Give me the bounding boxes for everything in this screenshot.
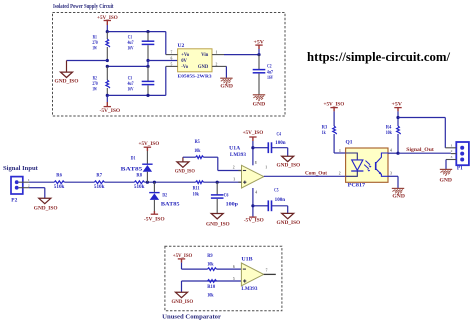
- node D2 cathode: [153, 181, 156, 184]
- wire col2 0V link: [147, 61, 149, 67]
- svg-text:Q1: Q1: [346, 140, 354, 145]
- svg-text:GND_ISO: GND_ISO: [172, 299, 194, 305]
- svg-text:C6: C6: [224, 193, 229, 198]
- svg-text:270: 270: [92, 41, 98, 46]
- svg-text:C4: C4: [277, 132, 282, 137]
- svg-text:1: 1: [265, 165, 267, 169]
- U2 E0505S-2WR3 body: [178, 49, 212, 72]
- svg-text:-5V_ISO: -5V_ISO: [144, 217, 165, 223]
- svg-text:510k: 510k: [94, 185, 105, 190]
- svg-text:2: 2: [451, 149, 453, 153]
- svg-text:4: 4: [255, 190, 257, 194]
- op-amp U1B: [241, 263, 263, 286]
- svg-text:7: 7: [266, 268, 268, 272]
- svg-text:C2: C2: [267, 65, 272, 70]
- node Q1 pin4 / R4: [396, 152, 399, 155]
- capacitor C4: [267, 142, 269, 153]
- svg-text:3: 3: [451, 155, 453, 159]
- ground GND (P1): [440, 168, 452, 170]
- svg-text:10k: 10k: [193, 193, 199, 198]
- svg-text:10k: 10k: [386, 131, 392, 136]
- wire C4 branch: [253, 147, 268, 149]
- capacitor C2: [258, 55, 260, 70]
- svg-text:4u7: 4u7: [128, 41, 134, 46]
- svg-text:LM393: LM393: [230, 152, 246, 158]
- svg-text:D1: D1: [131, 156, 136, 161]
- svg-text:PC817: PC817: [348, 184, 366, 189]
- wire top rail: [107, 31, 166, 33]
- svg-text:U1B: U1B: [241, 256, 253, 262]
- svg-text:R2: R2: [93, 76, 98, 81]
- resistor R7: [94, 181, 104, 184]
- svg-text:6: 6: [233, 265, 235, 269]
- node bottom rail left: [106, 94, 109, 97]
- svg-text:100p: 100p: [226, 202, 239, 207]
- svg-text:1: 1: [216, 51, 218, 55]
- svg-text:D2: D2: [162, 193, 167, 198]
- Q1 LED: [346, 153, 358, 160]
- wire 0V link row: [107, 65, 148, 67]
- node pin4/C5: [251, 204, 254, 207]
- svg-text:10k: 10k: [207, 263, 214, 268]
- svg-text:7: 7: [171, 51, 173, 55]
- svg-text:R10: R10: [207, 285, 215, 290]
- svg-text:Vin: Vin: [201, 53, 209, 58]
- svg-text:+5V_ISO: +5V_ISO: [243, 130, 264, 136]
- wire R5 left: [183, 156, 196, 158]
- svg-text:1W: 1W: [92, 47, 97, 52]
- node link right: [146, 65, 149, 68]
- wire signal segment d: [144, 181, 195, 183]
- svg-text:+Vo: +Vo: [181, 53, 190, 58]
- node Vin/+5V/C2: [257, 53, 260, 56]
- wire U2 GND down: [225, 66, 227, 78]
- svg-text:1: 1: [451, 143, 453, 147]
- svg-text:R3: R3: [322, 125, 328, 130]
- resistor R10: [208, 280, 217, 283]
- svg-text:Signal_Out: Signal_Out: [406, 148, 434, 153]
- svg-text:2: 2: [28, 184, 30, 188]
- wire P1 pin3 to gnd: [445, 160, 447, 170]
- svg-text:Signal Input: Signal Input: [3, 165, 39, 172]
- svg-text:2: 2: [233, 166, 235, 170]
- svg-text:BAT85: BAT85: [121, 167, 143, 172]
- op-amp U1A: [242, 165, 264, 188]
- wire C5 branch: [253, 205, 268, 207]
- svg-text:R1: R1: [93, 35, 98, 40]
- svg-text:0V: 0V: [181, 59, 187, 64]
- svg-text:GND_ISO: GND_ISO: [34, 205, 58, 211]
- svg-text:1W: 1W: [92, 87, 97, 92]
- resistor R2: [106, 66, 108, 80]
- svg-text:1: 1: [339, 149, 341, 153]
- wire P2 pin2 to gnd: [29, 187, 45, 189]
- top dashed region box: [53, 13, 286, 117]
- ground GND_ISO (U1B): [176, 292, 188, 297]
- svg-text:GND: GND: [440, 179, 453, 184]
- svg-text:100n: 100n: [275, 198, 286, 203]
- svg-text:-5V_ISO: -5V_ISO: [100, 108, 121, 114]
- svg-text:2: 2: [339, 172, 341, 176]
- svg-text:3: 3: [233, 177, 235, 181]
- ground GND (Q1): [392, 187, 404, 189]
- U1A pin 4 wire: [252, 188, 254, 217]
- svg-text:C1: C1: [128, 35, 133, 40]
- U2 pin 1 Vin: [212, 54, 224, 56]
- ground GND_ISO (C5): [282, 213, 294, 218]
- resistor R11: [196, 181, 204, 184]
- node C6 tap: [216, 181, 219, 184]
- ground GND_ISO (top box): [66, 61, 68, 73]
- wire R5 to pin2: [204, 156, 218, 158]
- Q1 pin 4 wire: [388, 152, 398, 154]
- svg-text:510k: 510k: [54, 185, 65, 190]
- svg-text:3: 3: [390, 171, 392, 175]
- wire signal segment b: [64, 181, 94, 183]
- svg-text:4: 4: [390, 148, 392, 152]
- P1 pin 1: [445, 147, 456, 149]
- ground GND_ISO (C4): [282, 156, 294, 161]
- wire gnd drop (U1B): [181, 281, 183, 292]
- P2 pin 2: [19, 187, 29, 189]
- power -5V_ISO (D2): [153, 211, 155, 214]
- svg-text:4u7: 4u7: [267, 70, 273, 75]
- svg-text:E0505S-2WR3: E0505S-2WR3: [178, 73, 213, 78]
- connector P1: [456, 142, 469, 165]
- wire -Vo vertical: [165, 66, 167, 95]
- ground GND (C2): [253, 94, 265, 96]
- svg-text:+5V_ISO: +5V_ISO: [139, 141, 160, 147]
- ground GND_ISO (P2): [39, 198, 51, 203]
- wire pin5 row: [182, 280, 242, 282]
- P2 pin 1: [19, 181, 29, 183]
- svg-text:GND_ISO: GND_ISO: [277, 163, 301, 169]
- P1 pin 3: [446, 159, 456, 161]
- P1 pin 2: [451, 153, 456, 155]
- optocoupler Q1 PC817 body: [346, 148, 388, 182]
- wire top rail corner down to U2 +Vo: [165, 32, 167, 55]
- U1B pin 7 output: [264, 273, 276, 275]
- svg-text:C3: C3: [128, 76, 133, 81]
- U1A pin 2: [238, 170, 241, 172]
- wire +5V to P1 pin1: [398, 117, 445, 119]
- ground GND (U2 pin2): [220, 77, 232, 79]
- U2 pin 2 GND: [212, 65, 226, 67]
- svg-text:+5V_ISO: +5V_ISO: [324, 101, 345, 107]
- resistor R9: [208, 268, 217, 271]
- node C1 bottom on 0V rail: [146, 59, 149, 62]
- capacitor C5: [267, 200, 269, 211]
- svg-text:BAT85: BAT85: [161, 202, 180, 207]
- U2 pin 7 +Vo: [166, 54, 178, 56]
- svg-text:-Vo: -Vo: [181, 65, 189, 70]
- resistor R8: [134, 181, 144, 184]
- svg-text:C5: C5: [274, 189, 279, 194]
- svg-text:P1: P1: [457, 166, 464, 171]
- svg-text:LM393: LM393: [241, 286, 257, 292]
- svg-text:5: 5: [171, 62, 173, 66]
- wire bottom rail: [107, 94, 166, 96]
- resistor R5: [196, 156, 204, 159]
- svg-text:GND: GND: [253, 102, 266, 107]
- svg-text:10k: 10k: [194, 149, 200, 154]
- node +5V/P1 branch: [396, 116, 399, 119]
- svg-text:R4: R4: [386, 125, 392, 130]
- svg-text:1: 1: [28, 178, 30, 182]
- svg-text:GND: GND: [198, 65, 209, 70]
- svg-text:U2: U2: [178, 44, 185, 49]
- node pin8/C4: [251, 146, 254, 149]
- node C1 top: [146, 30, 149, 33]
- svg-text:GND: GND: [392, 195, 405, 200]
- node R1/R2/GND rail: [106, 59, 109, 62]
- resistor R3: [333, 126, 337, 134]
- wire R9 to pin6: [217, 268, 242, 270]
- ground GND_ISO (R5): [177, 162, 189, 167]
- svg-text:https://simple-circuit.com/: https://simple-circuit.com/: [307, 50, 451, 64]
- capacitor C3: [147, 66, 149, 81]
- U1A pin 3: [238, 181, 241, 183]
- capacitor C6: [216, 182, 218, 195]
- svg-text:R11: R11: [193, 187, 200, 192]
- capacitor C1: [147, 32, 149, 42]
- svg-text:4u7: 4u7: [128, 82, 134, 87]
- wire Signal_Out: [398, 152, 451, 154]
- power -5V_ISO (top box): [106, 95, 108, 102]
- diode D2 BAT85: [153, 182, 155, 192]
- wire 0V rail to U2: [148, 60, 178, 62]
- resistor R4: [397, 126, 401, 134]
- svg-text:GND: GND: [220, 84, 233, 89]
- wire signal segment a: [29, 181, 54, 183]
- U1A pin 1 output wire: [264, 175, 346, 177]
- svg-text:16V: 16V: [128, 87, 134, 92]
- svg-text:510k: 510k: [134, 185, 145, 190]
- node junction top rail / R1: [106, 30, 109, 33]
- node C3 bottom: [146, 94, 149, 97]
- svg-text:R9: R9: [207, 254, 213, 259]
- svg-text:Isolated Power Supply Circuit: Isolated Power Supply Circuit: [53, 3, 114, 10]
- Q1 light arrows: [364, 161, 370, 169]
- diode D1 BAT85: [146, 151, 148, 164]
- svg-text:10k: 10k: [207, 293, 214, 298]
- wire Vin to +5V node: [224, 54, 259, 56]
- wire gnd_iso rail: [67, 60, 108, 62]
- Q1 pin 3 wire: [388, 175, 398, 177]
- svg-text:+5V: +5V: [392, 101, 403, 107]
- svg-text:8: 8: [255, 161, 257, 165]
- U2 pin 5 -Vo: [166, 65, 178, 67]
- svg-text:6: 6: [171, 57, 173, 61]
- Q1 phototransistor: [375, 162, 377, 170]
- wire signal segment c: [104, 181, 134, 183]
- svg-text:270: 270: [92, 82, 98, 87]
- wire signal segment e: [204, 181, 242, 183]
- svg-text:R8: R8: [136, 173, 142, 178]
- svg-text:-5V_ISO: -5V_ISO: [244, 218, 264, 224]
- svg-text:1k: 1k: [322, 131, 326, 136]
- svg-text:5: 5: [233, 277, 235, 281]
- svg-text:U1A: U1A: [229, 145, 240, 151]
- svg-text:Unused Comparator: Unused Comparator: [162, 314, 221, 321]
- power -5V_ISO (U1A): [249, 216, 256, 218]
- svg-text:R5: R5: [195, 140, 201, 145]
- svg-text:GND_ISO: GND_ISO: [277, 220, 301, 226]
- svg-text:R6: R6: [56, 173, 62, 178]
- svg-text:Com_Out: Com_Out: [305, 171, 327, 176]
- svg-text:16V: 16V: [128, 47, 134, 52]
- resistor R1: [106, 32, 108, 39]
- node D1 anode: [146, 181, 149, 184]
- svg-text:GND_ISO: GND_ISO: [206, 222, 230, 228]
- svg-text:P2: P2: [11, 198, 18, 203]
- svg-text:16V: 16V: [267, 76, 273, 81]
- svg-text:GND_ISO: GND_ISO: [55, 78, 79, 84]
- bottom dashed region box: [165, 246, 282, 311]
- svg-text:2: 2: [216, 62, 218, 66]
- connector P2: [11, 177, 23, 194]
- ground GND_ISO (C6): [211, 214, 223, 219]
- resistor R6: [54, 181, 64, 184]
- svg-text:R7: R7: [96, 173, 102, 178]
- svg-text:100n: 100n: [275, 141, 286, 146]
- node link left: [106, 65, 109, 68]
- svg-text:GND_ISO: GND_ISO: [175, 168, 195, 174]
